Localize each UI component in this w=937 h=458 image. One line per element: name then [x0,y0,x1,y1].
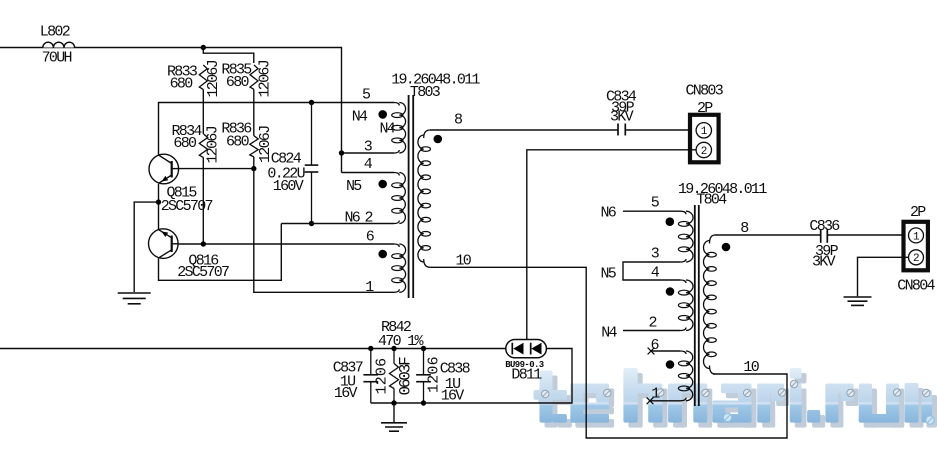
svg-text:T804: T804 [696,191,727,208]
svg-text:1206J: 1206J [257,60,274,97]
wire T803 pin 8 to C834 [430,129,618,131]
wire R836 bottom to Q815 base node [253,157,255,169]
capacitor C824 [305,103,319,224]
T804 primary winding pins 4-2 [678,280,693,331]
connector CN804 [904,222,928,270]
node Q815 base / R836 junction [251,166,256,171]
phase dot T804 winding 5-3 [666,217,675,226]
svg-text:1: 1 [701,126,708,138]
capacitor C836 [821,229,828,243]
wire bottom return rail C837 to D811 cathode corner [371,349,572,404]
svg-text:680: 680 [173,135,197,152]
svg-text:N6: N6 [345,210,361,227]
svg-text:4: 4 [364,156,373,173]
svg-text:4: 4 [651,264,660,281]
ground (R842) [381,423,407,431]
T803 primary winding N5 pins 4-2 [392,173,406,224]
transistor Q815 2SC5707 NPN [149,154,179,184]
wire Q816 collector to T803 pin 2 node [159,224,282,281]
svg-text:N4: N4 [601,325,617,342]
no-connect X at T804 pin 6 [648,348,655,355]
phase dot T804 winding 4-2 [666,287,675,296]
phase dot T804 secondary [722,243,731,252]
node emitter junction to ground tap [156,199,161,204]
node Q816 base / R834 junction [201,241,206,246]
wire top rail from left edge through L802 to R833 junction and corner [0,48,342,154]
resistor R835 [250,65,258,89]
svg-text:2: 2 [365,209,373,226]
phase dot winding N5 [378,180,387,189]
capacitor C837 [363,349,378,404]
wire bottom-left rail to D811 anode [0,348,506,350]
wire CN803 pin 2 down to D811 center tap [527,150,697,340]
wire R834 bottom to Q816 base node [202,158,204,244]
svg-text:10: 10 [743,359,759,376]
svg-text:3KV: 3KV [812,254,836,271]
svg-text:2SC5707: 2SC5707 [177,264,229,281]
phase dot winding N4 [378,110,387,119]
wire C834 to CN803 pin 1 [625,129,696,131]
svg-text:16V: 16V [334,385,358,402]
svg-text:680: 680 [226,74,250,91]
wire R833 body column between zigzags crossing collector rail [202,90,204,135]
wire T803 pin 2 (N6) [281,223,394,225]
wire T804 pins 3-4 series link [623,262,680,280]
wire T804 pin 6 stub [651,350,680,352]
svg-text:160V: 160V [273,178,304,195]
svg-text:C836: C836 [809,218,840,235]
wire T803 pin 10 to corner [430,267,787,438]
resistor R842 [390,349,399,404]
ground (emitters) [118,293,151,304]
svg-text:8: 8 [454,111,463,128]
svg-text:3: 3 [651,246,660,263]
svg-text:3KV: 3KV [610,108,634,125]
svg-text:1206J: 1206J [205,60,222,97]
node C824 top junction [309,100,314,105]
svg-text:1206: 1206 [426,356,443,393]
T804 core [695,205,699,406]
svg-text:2: 2 [649,315,657,332]
wire Q815 emitter to Q816 emitter [158,184,160,229]
svg-text:5: 5 [362,87,371,104]
node R842 top junction [391,346,396,351]
T803 core [409,95,414,298]
phase dot T803 secondary [434,135,443,144]
svg-text:1: 1 [365,279,374,296]
node C837 top junction [368,346,373,351]
svg-text:L802: L802 [40,24,70,41]
wire C836 to CN804 pin 1 [827,234,909,236]
svg-text:2: 2 [913,253,919,265]
capacitor C834 [618,124,625,136]
wire Q815 collector rail to T803 pin 5 and C824 top [159,103,395,155]
svg-text:2: 2 [701,146,707,158]
wire T804 pin 2 stub (N4) [623,330,680,332]
capacitor C838 [416,349,431,404]
svg-text:CN804: CN804 [897,278,935,295]
T804 primary winding pins 6-1 [678,351,692,401]
wire T804 pin 8 to C836 [715,234,821,236]
node pins 3/4 junction [339,150,344,155]
svg-text:70UH: 70UH [42,49,72,66]
svg-text:470 1%: 470 1% [378,333,425,350]
node C838 bottom junction [421,400,426,405]
svg-text:6: 6 [366,228,375,245]
svg-text:2P: 2P [697,100,713,117]
phase dot winding 6-1 [378,250,387,259]
svg-text:C838: C838 [440,360,471,377]
T803 primary winding pins 6-1 [392,244,406,292]
watermark tehnari.ru (decorative) [534,368,937,428]
svg-text:680: 680 [170,76,194,93]
no-connect X at T804 pin 1 [647,397,654,404]
T804 primary winding pins 5-3 [678,211,693,262]
resistor R834 [199,134,207,158]
transistor Q816 2SC5707 NPN (emitter up) [149,229,179,259]
node R842 bottom junction [391,400,396,405]
wire R835 body column between zigzags crossing collector rail [253,90,255,136]
svg-text:T803: T803 [410,84,441,101]
wire T804 pin 5 stub (N6) [623,210,680,212]
wire Q815 base node down to T803 pin 1 wire [254,169,394,293]
svg-text:1206J: 1206J [205,126,222,163]
svg-text:N5: N5 [346,178,362,195]
wire T804 pin 1 stub [650,400,680,402]
T803 secondary winding pins 8-10 [418,130,431,267]
T803 primary winding N4 pins 5-3 [392,103,406,154]
svg-text:N6: N6 [601,205,617,222]
wire CN804 pin 2 to ground [858,257,909,296]
svg-text:1: 1 [913,231,920,243]
svg-text:5: 5 [651,194,660,211]
wire Q815 base to R836 node [179,168,254,170]
wire emitter junction to ground [134,202,158,292]
svg-text:0603F: 0603F [397,357,415,396]
svg-text:2P: 2P [910,204,926,221]
phase dot T804 winding 6-1 [666,360,675,369]
wire R842 bottom to ground [393,403,395,422]
svg-text:CN803: CN803 [686,82,724,99]
connector CN803 [690,115,719,163]
node C824 bottom junction [309,221,314,226]
svg-text:N4: N4 [352,109,368,126]
node junction top rail at R833 column [201,45,206,50]
wire Q816 base to R834 node and T803 pin 6 [179,243,394,245]
T804 secondary winding pins 8-10 [704,235,717,374]
diode D811 BU99-0.3 dual [506,340,547,358]
inductor L802 [43,42,75,47]
svg-text:2SC5707: 2SC5707 [161,198,213,215]
svg-text:N4: N4 [380,121,396,138]
svg-text:N5: N5 [601,266,617,283]
svg-text:D811: D811 [511,367,542,384]
resistor R833 [199,65,207,89]
node C838 top junction [421,346,426,351]
svg-text:1206: 1206 [374,358,391,395]
resistor R836 [250,136,258,157]
svg-text:680: 680 [226,134,250,151]
ground (CN804) [844,297,872,305]
wire jog from R833 column to R835 column [203,48,254,64]
wire T803 pins 3-4 series link [342,153,395,173]
svg-text:16V: 16V [441,387,465,404]
